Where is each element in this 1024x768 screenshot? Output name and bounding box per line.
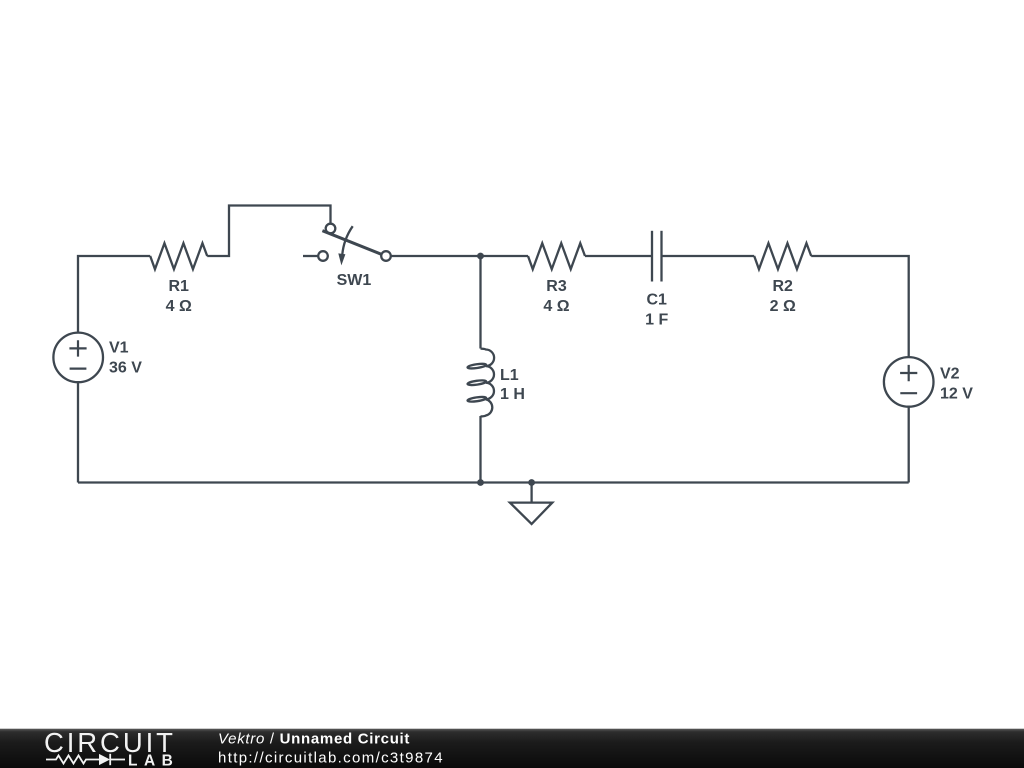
node dot bottom L1 bbox=[477, 479, 484, 486]
node dot ground bbox=[528, 479, 535, 486]
svg-text:1 H: 1 H bbox=[500, 386, 525, 403]
inductor L1 loop ellipse 3 bbox=[467, 396, 486, 402]
svg-text:LAB: LAB bbox=[128, 752, 179, 768]
capacitor C1 left plate bbox=[651, 231, 653, 282]
bottom bus wire bbox=[78, 481, 909, 483]
wire V1 top to R1 bbox=[78, 256, 150, 332]
svg-text:http://circuitlab.com/c3t9874: http://circuitlab.com/c3t9874 bbox=[218, 749, 444, 766]
voltage source V1 circle bbox=[53, 333, 103, 383]
svg-text:12 V: 12 V bbox=[940, 386, 973, 403]
wire switch to node bbox=[391, 255, 481, 257]
switch SW1 arrow head bbox=[338, 253, 345, 265]
svg-text:V2: V2 bbox=[940, 366, 960, 383]
CircuitLab logo diode triangle bbox=[99, 754, 110, 765]
node dot top bbox=[477, 253, 484, 260]
V1 plus sign bbox=[69, 340, 86, 356]
switch SW1 blade bbox=[322, 231, 381, 255]
svg-text:4 Ω: 4 Ω bbox=[543, 298, 569, 315]
svg-text:2 Ω: 2 Ω bbox=[770, 298, 796, 315]
V2 minus sign bbox=[900, 392, 917, 394]
wire V1 bottom to bus bbox=[77, 383, 79, 483]
resistor R3 bbox=[528, 243, 585, 269]
wire V2 bottom to bus bbox=[908, 407, 910, 483]
inductor L1 coil bbox=[481, 349, 495, 417]
wire R3 to C1 bbox=[585, 255, 652, 257]
wire node to R3 bbox=[481, 255, 529, 257]
switch SW1 top terminal circle bbox=[326, 224, 336, 234]
svg-text:C1: C1 bbox=[646, 292, 667, 309]
svg-text:V1: V1 bbox=[109, 339, 129, 356]
svg-text:R3: R3 bbox=[546, 278, 567, 295]
voltage source V2 circle bbox=[884, 357, 934, 407]
svg-text:36 V: 36 V bbox=[109, 360, 142, 377]
ground stem bbox=[530, 483, 532, 503]
wire switch pole stub bbox=[303, 255, 318, 257]
wire C1 to R2 bbox=[662, 255, 755, 257]
CircuitLab logo resistor-diode glyph bbox=[46, 754, 125, 765]
svg-text:SW1: SW1 bbox=[337, 272, 372, 289]
switch SW1 pole circle bbox=[318, 251, 328, 261]
svg-text:4 Ω: 4 Ω bbox=[166, 298, 192, 315]
wire L1 bottom to bus bbox=[479, 416, 481, 483]
svg-text:Vektro / Unnamed Circuit: Vektro / Unnamed Circuit bbox=[218, 731, 410, 748]
resistor R1 bbox=[150, 243, 207, 269]
wire node down to L1 bbox=[479, 256, 481, 349]
svg-text:R1: R1 bbox=[168, 278, 189, 295]
inductor L1 loop ellipse 2 bbox=[467, 380, 486, 386]
resistor R2 bbox=[754, 243, 811, 269]
switch SW1 actuation arrow arc bbox=[342, 226, 353, 255]
svg-text:1 F: 1 F bbox=[645, 311, 668, 328]
wire R1 to riser to switch top bbox=[207, 206, 330, 257]
V1 minus sign bbox=[70, 368, 87, 370]
ground triangle bbox=[510, 503, 552, 524]
svg-text:R2: R2 bbox=[772, 278, 793, 295]
svg-text:L1: L1 bbox=[500, 367, 519, 384]
wire R2 to V2 top bbox=[811, 256, 909, 357]
capacitor C1 right plate bbox=[660, 231, 662, 282]
inductor L1 loop ellipse 1 bbox=[467, 363, 486, 369]
V2 plus sign bbox=[900, 365, 917, 381]
switch SW1 right terminal circle bbox=[381, 251, 391, 261]
